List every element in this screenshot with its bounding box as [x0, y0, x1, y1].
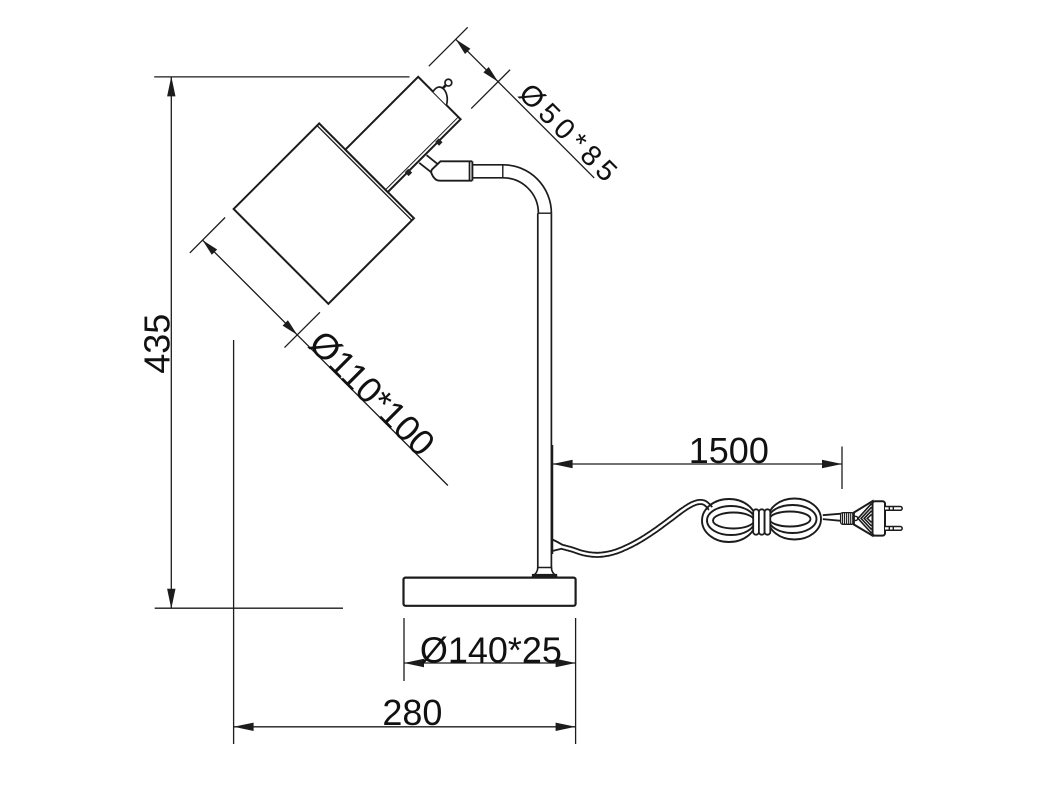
plug pin bottom: [885, 527, 902, 531]
toggle switch on end cap: [433, 85, 453, 105]
cord from coil to plug: [823, 514, 841, 516]
stem foot flare: [532, 568, 557, 578]
arm bend inner arc: [503, 178, 538, 213]
dim 1500 extension lines: [552, 445, 554, 554]
dim O50*85 leader under text: [498, 82, 594, 178]
svg-text:435: 435: [137, 314, 178, 374]
power cord lower strand: [551, 504, 709, 557]
sleeve end ring: [469, 161, 471, 180]
dim 1500 line: [553, 463, 842, 465]
dim O110*100 arrow line: [203, 240, 298, 335]
lamp head group (rotated 45 deg): [234, 36, 502, 304]
lamp holder cylinder (O50*85): [345, 77, 460, 192]
plug body trapezoid: [854, 501, 873, 535]
base disc O140*25: [404, 578, 576, 606]
extension line base left: [403, 618, 405, 681]
top reference line: [154, 76, 409, 78]
extension line left of 280 (shade leftmost): [233, 340, 235, 744]
svg-text:1500: 1500: [689, 430, 769, 471]
holder inner seam line: [386, 117, 459, 190]
lamp shade cylinder (O110*100): [234, 123, 414, 303]
dim O140*25 line: [404, 662, 576, 664]
cord coil right lobe: [768, 499, 821, 540]
plug strain relief ribs: [841, 513, 854, 525]
arm pivot sleeve: [431, 161, 472, 180]
arm bend outer arc: [503, 165, 551, 213]
cord coil left lobe: [702, 499, 756, 542]
dim 435 vertical line: [170, 77, 172, 608]
power cord upper strand: [551, 500, 712, 553]
svg-text:280: 280: [382, 692, 442, 733]
coil centre wrap rings: [753, 509, 759, 534]
vertical stem: [537, 213, 539, 570]
extension line right (base right edge): [575, 618, 577, 744]
dim O50*85 witness ticks: [429, 27, 468, 66]
plug pin top: [885, 507, 902, 511]
small tabs on holder lower side: [405, 169, 412, 176]
dim O50*85 arrow line: [456, 39, 498, 81]
plug front block: [873, 501, 886, 535]
horizontal arm tube: [472, 164, 503, 166]
weld tick at bend start: [502, 165, 504, 178]
weld tick at bend end: [538, 212, 552, 214]
dim 280 line: [234, 726, 576, 728]
shade rim inner line near cap: [317, 126, 412, 221]
dim O110*100 leader under text: [297, 335, 448, 486]
svg-text:Ø140*25: Ø140*25: [420, 629, 562, 670]
plug grip chevrons: [867, 514, 871, 522]
floor reference line: [155, 607, 343, 609]
dim O110*100 witness ticks: [190, 218, 225, 253]
joint bracket straps: [427, 155, 438, 164]
